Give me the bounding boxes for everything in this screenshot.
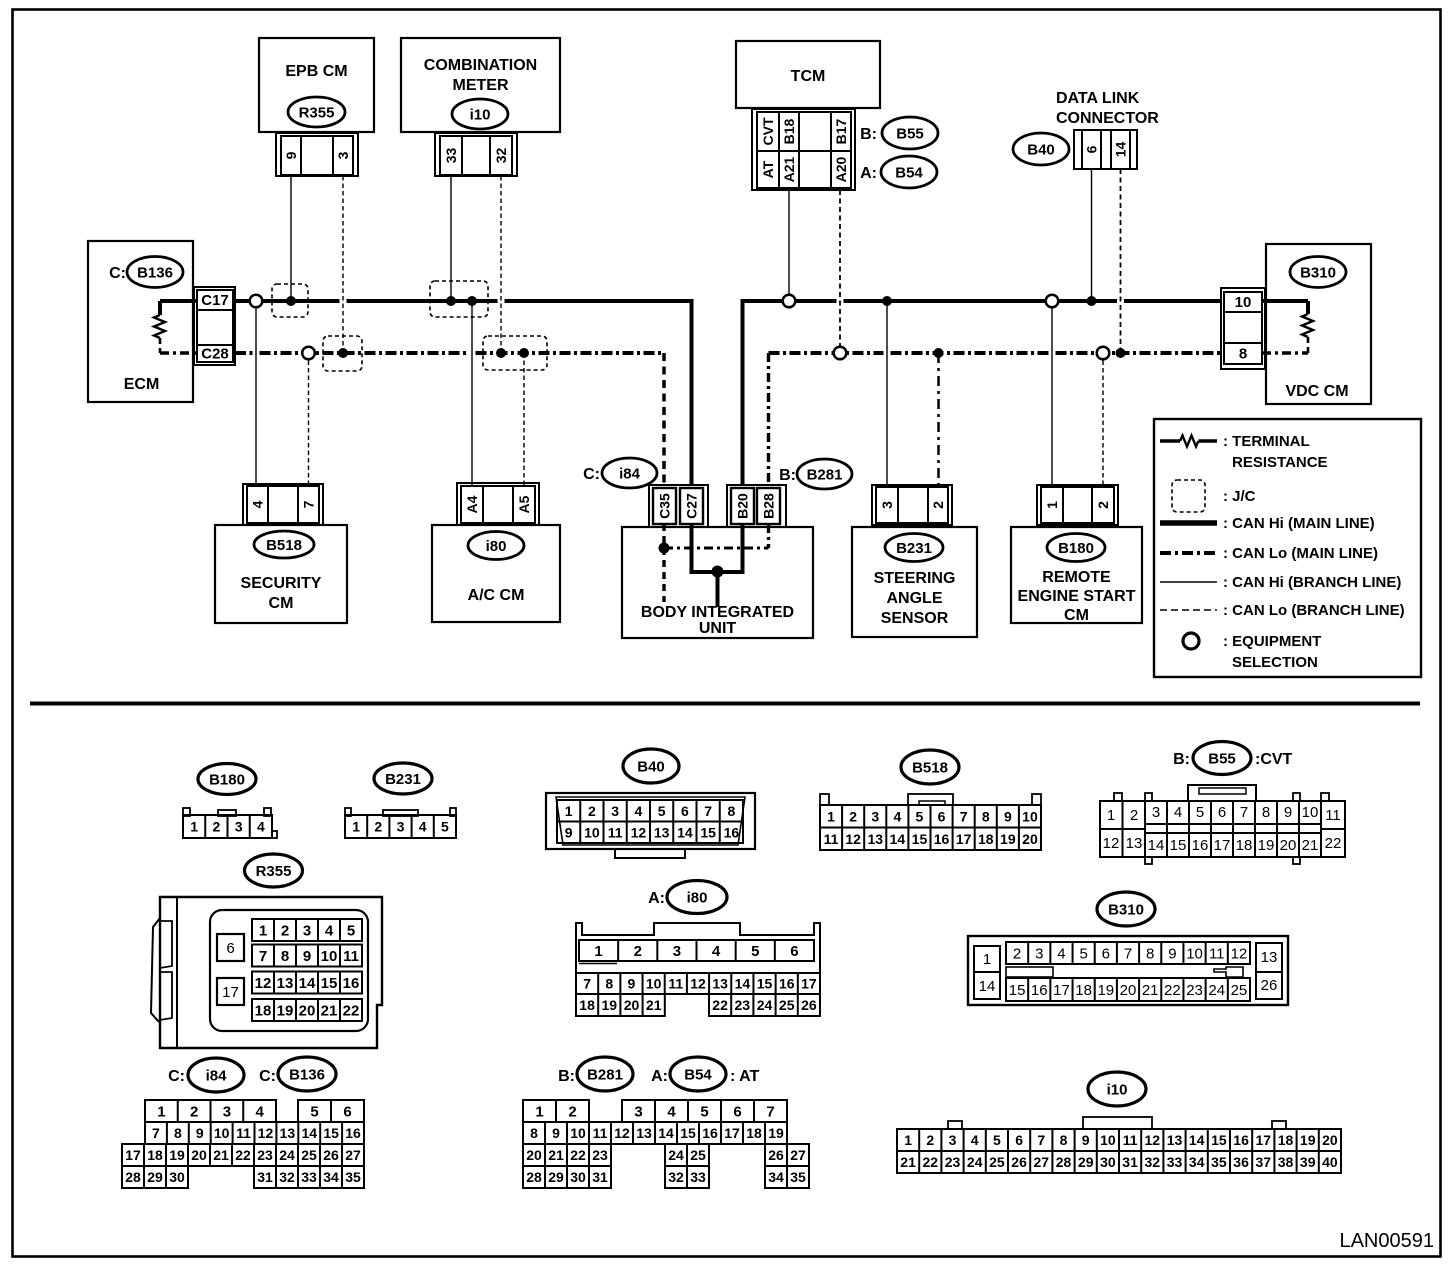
svg-text:13: 13 (1261, 949, 1278, 966)
svg-text:DATA LINK: DATA LINK (1056, 90, 1140, 107)
svg-text:A/C CM: A/C CM (468, 587, 525, 604)
svg-text:7: 7 (259, 948, 267, 965)
svg-text:20: 20 (1322, 1132, 1338, 1148)
component BODY INTEGRATED UNIT (622, 527, 813, 638)
svg-text:20: 20 (624, 997, 640, 1013)
svg-text:8: 8 (1262, 804, 1270, 821)
connector B518 pin view 1-20 (820, 794, 1041, 850)
svg-text:2: 2 (190, 1103, 198, 1120)
svg-text:26: 26 (1011, 1154, 1027, 1170)
oval B180 (remote engine start CM) (1047, 534, 1105, 562)
svg-text:33: 33 (690, 1169, 706, 1185)
component EPB CM (259, 38, 374, 132)
wire branch CAN Hi EPB CM pin 9 (290, 176, 292, 301)
oval R355 (connector view) (245, 854, 303, 887)
wire CAN Lo main line (left segment) (235, 351, 253, 355)
svg-text:12: 12 (845, 831, 861, 847)
svg-text:30: 30 (570, 1169, 586, 1185)
svg-text:17: 17 (222, 984, 239, 1001)
svg-text:12: 12 (631, 824, 647, 840)
wire branch CAN Hi data link connector pin 6 (1091, 169, 1093, 301)
svg-text:1: 1 (594, 943, 602, 960)
wire branch CAN Lo TCM A20/B17 (839, 190, 841, 353)
svg-text:15: 15 (323, 1125, 339, 1141)
svg-text:22: 22 (235, 1147, 251, 1163)
svg-text:B136: B136 (137, 264, 173, 281)
svg-text:3: 3 (673, 943, 681, 960)
legend CAN Hi branch line (1160, 574, 1401, 591)
svg-text:4: 4 (257, 819, 265, 835)
svg-text:1: 1 (983, 951, 991, 968)
svg-text:B180: B180 (1058, 540, 1094, 557)
svg-text:15: 15 (680, 1125, 696, 1141)
svg-text:11: 11 (593, 1125, 608, 1141)
wire branch CAN Hi remote engine start CM pin 1 (1051, 301, 1053, 486)
equipment selection circle (remote engine start, CAN Hi) (1046, 295, 1059, 308)
svg-text:14: 14 (890, 831, 906, 847)
connector pins 1/2 (remote engine start CM) (1037, 485, 1118, 525)
svg-text:37: 37 (1256, 1154, 1272, 1170)
label B: B281 (body integrated unit) (779, 459, 852, 489)
svg-text:15: 15 (321, 975, 338, 992)
svg-text:22: 22 (343, 1002, 360, 1019)
wire CAN Lo main line corner down to B28 (767, 353, 770, 486)
component TCM (736, 41, 880, 108)
connector C17/C28 (ECM) (194, 287, 235, 365)
svg-text:18: 18 (1278, 1132, 1294, 1148)
svg-text:A4: A4 (464, 495, 480, 513)
wire CAN Lo main line corner down to C35 (662, 353, 666, 486)
junction dot EPB pin 3 on CAN Lo (338, 348, 348, 358)
svg-text:20: 20 (1120, 982, 1137, 999)
component STEERING ANGLE SENSOR (852, 527, 977, 637)
svg-text:LAN00591: LAN00591 (1339, 1230, 1434, 1252)
svg-text:35: 35 (345, 1169, 361, 1185)
connector B310 pin view 1-26 (968, 936, 1288, 1005)
svg-text:35: 35 (790, 1169, 806, 1185)
J/C junction box (EPB CM branch, CAN Hi) (272, 284, 308, 317)
svg-text:6: 6 (226, 940, 234, 957)
oval A: B54 (TCM) (860, 156, 937, 188)
svg-text:18: 18 (978, 831, 994, 847)
svg-text:: AT: : AT (730, 1068, 760, 1085)
svg-text:34: 34 (768, 1169, 784, 1185)
svg-text:B55: B55 (1208, 750, 1236, 767)
svg-text:i80: i80 (486, 538, 507, 555)
svg-text:4: 4 (667, 1103, 676, 1120)
svg-text:5: 5 (441, 819, 449, 835)
svg-text:23: 23 (1186, 982, 1203, 999)
connector i10 pin view 1-40 (897, 1117, 1341, 1173)
component REMOTE ENGINE START CM (1011, 527, 1142, 624)
connector pins 4/7 (security CM) (243, 484, 323, 525)
svg-text:8: 8 (1146, 945, 1154, 962)
svg-text:32: 32 (668, 1169, 684, 1185)
svg-text:B20: B20 (734, 493, 750, 519)
svg-text:B54: B54 (895, 164, 923, 181)
svg-text:: CAN Hi (MAIN LINE): : CAN Hi (MAIN LINE) (1223, 515, 1375, 532)
svg-text:7: 7 (1240, 804, 1248, 821)
svg-text:4: 4 (325, 922, 334, 939)
svg-text:1: 1 (352, 819, 360, 835)
connector R355 pin view 1-22 (151, 897, 382, 1048)
svg-text:B:: B: (558, 1068, 575, 1085)
wire CAN Hi main line corner down to C27 (690, 299, 694, 486)
svg-text:CVT: CVT (760, 117, 776, 145)
svg-text:B:: B: (860, 126, 877, 143)
connector pins 9/3 (EPB CM) (276, 133, 358, 176)
svg-text:6: 6 (1102, 945, 1110, 962)
svg-text:18: 18 (1075, 982, 1092, 999)
svg-text:8: 8 (530, 1125, 538, 1141)
J/C junction box (combination meter / A/C CM, CAN Hi) (430, 281, 488, 317)
svg-text:6: 6 (1015, 1132, 1023, 1148)
svg-text:17: 17 (1214, 837, 1231, 854)
wire branch CAN Lo security CM pin 7 (308, 353, 310, 486)
svg-text:AT: AT (760, 160, 776, 178)
legend equipment selection symbol (1183, 633, 1321, 671)
svg-text:1: 1 (565, 803, 573, 819)
svg-text:3: 3 (1035, 945, 1043, 962)
svg-text:22: 22 (923, 1154, 939, 1170)
svg-text:13: 13 (654, 824, 670, 840)
svg-text:20: 20 (191, 1147, 207, 1163)
svg-text:21: 21 (900, 1154, 916, 1170)
svg-text:17: 17 (125, 1147, 141, 1163)
svg-text:6: 6 (1083, 145, 1099, 153)
svg-text:6: 6 (790, 943, 798, 960)
J/C junction box (combination meter / A/C CM, CAN Lo) (483, 336, 547, 370)
svg-text:5: 5 (1196, 804, 1204, 821)
oval B: B55 (TCM) (860, 117, 938, 149)
svg-text:2: 2 (374, 819, 382, 835)
connector TCM pins AT/CVT A21/B18 A20/B17 (752, 109, 855, 190)
svg-text:B40: B40 (637, 758, 665, 775)
svg-text:16: 16 (1233, 1132, 1249, 1148)
svg-text:4: 4 (419, 819, 427, 835)
oval i10 (combination meter) (452, 99, 508, 129)
svg-text:13: 13 (712, 976, 728, 992)
wire CAN Lo inside body integrated unit (C35 to B28) (664, 524, 769, 602)
svg-text:10: 10 (214, 1125, 230, 1141)
svg-text:12: 12 (258, 1125, 274, 1141)
svg-text:RESISTANCE: RESISTANCE (1232, 454, 1328, 471)
svg-text:16: 16 (343, 975, 360, 992)
svg-text:13: 13 (1167, 1132, 1183, 1148)
svg-text:A21: A21 (781, 156, 797, 182)
svg-text:B281: B281 (807, 466, 843, 483)
junction dot data link pin 6 on CAN Hi (1087, 296, 1097, 306)
svg-text:: J/C: : J/C (1223, 488, 1256, 505)
wire CAN Hi main line (right segment) (743, 299, 837, 303)
legend J/C symbol (1172, 480, 1256, 512)
svg-text:16: 16 (1192, 837, 1209, 854)
svg-text:27: 27 (345, 1147, 361, 1163)
svg-text:C17: C17 (201, 292, 229, 309)
junction dot CAN Hi inside body integrated unit (712, 566, 724, 578)
svg-text:TCM: TCM (791, 68, 826, 85)
svg-text:30: 30 (169, 1169, 185, 1185)
svg-text:19: 19 (1300, 1132, 1316, 1148)
svg-text:11: 11 (1325, 807, 1341, 824)
svg-text:3: 3 (634, 1103, 642, 1120)
svg-text:8: 8 (605, 976, 613, 992)
junction dot steering sensor pin 2 on CAN Lo (934, 348, 944, 358)
svg-text:2: 2 (926, 1132, 934, 1148)
svg-text:21: 21 (646, 997, 662, 1013)
svg-text:26: 26 (323, 1147, 339, 1163)
svg-text:2: 2 (588, 803, 596, 819)
svg-text:i80: i80 (687, 889, 708, 906)
svg-text:22: 22 (1164, 982, 1181, 999)
oval B: B55 :CVT (connector view) (1173, 742, 1292, 775)
svg-text:B231: B231 (385, 771, 421, 788)
svg-text:20: 20 (1022, 831, 1038, 847)
svg-text:11: 11 (608, 824, 623, 840)
svg-text:19: 19 (1000, 831, 1016, 847)
wire branch CAN Lo A/C CM pin A5 (523, 353, 525, 486)
svg-text:3: 3 (303, 922, 311, 939)
svg-text:2: 2 (634, 943, 642, 960)
connector B40 pin view 1-16 (546, 793, 755, 858)
equipment selection circle (TCM, CAN Lo) (834, 347, 847, 360)
svg-text:16: 16 (724, 824, 740, 840)
svg-text:38: 38 (1278, 1154, 1294, 1170)
svg-text:14: 14 (658, 1125, 674, 1141)
svg-text:B17: B17 (833, 118, 849, 144)
svg-text:R355: R355 (256, 863, 292, 880)
svg-text:8: 8 (281, 948, 289, 965)
wire branch CAN Lo remote engine start CM pin 2 (1102, 353, 1104, 486)
J/C junction box (EPB CM branch, CAN Lo) (323, 336, 362, 371)
svg-text:25: 25 (690, 1147, 706, 1163)
svg-text:CONNECTOR: CONNECTOR (1056, 110, 1159, 127)
legend CAN Hi main line (1160, 515, 1375, 532)
junction dot EPB pin 9 on CAN Hi (286, 296, 296, 306)
svg-text:15: 15 (1009, 982, 1026, 999)
svg-text:21: 21 (1302, 837, 1319, 854)
svg-text:22: 22 (570, 1147, 586, 1163)
svg-text:22: 22 (712, 997, 728, 1013)
svg-text:6: 6 (733, 1103, 741, 1120)
connector B180 pin view 1-4 (183, 808, 277, 838)
svg-text:36: 36 (1233, 1154, 1249, 1170)
svg-text:CM: CM (269, 595, 294, 612)
svg-text:COMBINATION: COMBINATION (424, 57, 537, 74)
svg-text:5: 5 (658, 803, 666, 819)
svg-text:31: 31 (1122, 1154, 1138, 1170)
svg-text:4: 4 (255, 1103, 264, 1120)
svg-text:A5: A5 (516, 495, 532, 513)
svg-text:23: 23 (735, 997, 751, 1013)
svg-text:: CAN Hi (BRANCH LINE): : CAN Hi (BRANCH LINE) (1223, 574, 1401, 591)
junction dot steering sensor pin 3 on CAN Hi (882, 296, 892, 306)
svg-text:6: 6 (343, 1103, 351, 1120)
svg-text:14: 14 (1148, 837, 1165, 854)
svg-text:20: 20 (1280, 837, 1297, 854)
svg-text:14: 14 (301, 1125, 317, 1141)
oval R355 (288, 97, 345, 127)
svg-text:16: 16 (702, 1125, 718, 1141)
oval B40 (data link connector) (1013, 133, 1069, 165)
oval B518 (security CM) (254, 531, 314, 558)
svg-text:2: 2 (212, 819, 220, 835)
svg-text:3: 3 (335, 151, 351, 159)
svg-text:VDC CM: VDC CM (1285, 383, 1348, 400)
wire CAN Hi inside body integrated unit (C27 to B20) (690, 524, 745, 607)
svg-text:23: 23 (945, 1154, 961, 1170)
svg-text:EPB CM: EPB CM (285, 63, 347, 80)
svg-text:11: 11 (1123, 1132, 1138, 1148)
svg-text:7: 7 (1037, 1132, 1045, 1148)
svg-text:A:: A: (651, 1068, 668, 1085)
svg-text:ANGLE: ANGLE (887, 590, 943, 607)
svg-text:31: 31 (257, 1169, 273, 1185)
equipment selection circle (remote engine start, CAN Lo) (1097, 347, 1110, 360)
svg-text:3: 3 (871, 808, 879, 824)
connector C35/C27 (body integrated unit) (649, 485, 708, 527)
svg-text:3: 3 (949, 1132, 957, 1148)
svg-text:7: 7 (152, 1125, 160, 1141)
svg-text:19: 19 (1258, 837, 1275, 854)
oval A: i80 (connector view) (648, 881, 727, 914)
svg-text:i10: i10 (470, 106, 491, 123)
svg-text:B231: B231 (896, 540, 932, 557)
svg-text:2: 2 (1130, 807, 1138, 824)
svg-text:i84: i84 (619, 465, 641, 482)
junction dot A/C A5 on CAN Lo (519, 348, 529, 358)
svg-text:33: 33 (1167, 1154, 1183, 1170)
wire branch CAN Lo combination meter pin 32 (500, 176, 502, 353)
svg-text:34: 34 (323, 1169, 339, 1185)
svg-text:9: 9 (196, 1125, 204, 1141)
svg-text:11: 11 (668, 976, 683, 992)
wire CAN Hi main line (left segment) (235, 299, 340, 303)
svg-text:32: 32 (1145, 1154, 1161, 1170)
svg-text:SELECTION: SELECTION (1232, 654, 1318, 671)
section divider line (30, 702, 1420, 706)
svg-text:9: 9 (1284, 804, 1292, 821)
svg-text:8: 8 (727, 803, 735, 819)
svg-text:23: 23 (257, 1147, 273, 1163)
svg-text:3: 3 (223, 1103, 231, 1120)
svg-text:9: 9 (283, 151, 299, 159)
svg-text:10: 10 (321, 948, 338, 965)
svg-text:25: 25 (301, 1147, 317, 1163)
svg-text:16: 16 (1031, 982, 1048, 999)
svg-text:UNIT: UNIT (699, 620, 737, 637)
svg-text:ECM: ECM (124, 376, 160, 393)
svg-text:3: 3 (235, 819, 243, 835)
connector i80 pin view 1-26 (576, 923, 820, 1016)
svg-text:11: 11 (824, 831, 839, 847)
svg-text:7: 7 (766, 1103, 774, 1120)
svg-text:B310: B310 (1300, 264, 1336, 281)
junction dot meter pin 32 on CAN Lo (496, 348, 506, 358)
svg-text:26: 26 (801, 997, 817, 1013)
svg-text:SENSOR: SENSOR (881, 610, 949, 627)
svg-text:A:: A: (860, 165, 877, 182)
oval i80 (A/C CM) (468, 532, 524, 560)
svg-text:9: 9 (1004, 808, 1012, 824)
svg-text:24: 24 (668, 1147, 684, 1163)
svg-text:19: 19 (277, 1002, 294, 1019)
oval B40 (connector view) (623, 749, 679, 783)
svg-text:4: 4 (971, 1132, 979, 1148)
svg-text:5: 5 (751, 943, 759, 960)
svg-text:19: 19 (1097, 982, 1114, 999)
svg-text:12: 12 (255, 975, 272, 992)
svg-text:A:: A: (648, 890, 665, 907)
svg-text:32: 32 (493, 148, 509, 164)
svg-text:7: 7 (704, 803, 712, 819)
svg-text:1: 1 (1107, 807, 1115, 824)
oval B310 (VDC CM) (1290, 257, 1346, 288)
wire branch CAN Hi TCM A21/B18 (788, 190, 790, 301)
svg-text:35: 35 (1211, 1154, 1227, 1170)
svg-text:34: 34 (1189, 1154, 1205, 1170)
svg-text:17: 17 (724, 1125, 740, 1141)
svg-text:10: 10 (1100, 1132, 1116, 1148)
svg-text:B28: B28 (760, 493, 776, 519)
svg-text:B518: B518 (912, 759, 948, 776)
svg-text:19: 19 (768, 1125, 784, 1141)
svg-text:B518: B518 (266, 537, 302, 554)
svg-text:B:: B: (1173, 751, 1190, 768)
svg-text:12: 12 (1145, 1132, 1161, 1148)
wire branch CAN Lo steering angle sensor pin 2 (937, 353, 940, 486)
svg-text:7: 7 (300, 500, 316, 508)
wire branch CAN Hi combination meter pin 33 (450, 176, 452, 301)
oval B180 (connector view) (198, 764, 256, 795)
svg-text:10: 10 (646, 976, 662, 992)
svg-text:12: 12 (690, 976, 706, 992)
svg-text:15: 15 (1211, 1132, 1227, 1148)
svg-text:B55: B55 (896, 125, 924, 142)
wire branch CAN Hi security CM pin 4 (255, 301, 257, 486)
svg-text:3: 3 (1152, 804, 1160, 821)
svg-text:29: 29 (548, 1169, 564, 1185)
svg-text:14: 14 (1112, 142, 1128, 158)
connector pins 33/32 (combination meter) (435, 133, 517, 176)
connector pins 3/2 (steering angle sensor) (872, 485, 952, 525)
legend CAN Lo branch line (1160, 602, 1405, 619)
svg-text:5: 5 (310, 1103, 318, 1120)
svg-text:39: 39 (1300, 1154, 1316, 1170)
junction dot A/C A4 on CAN Hi (467, 296, 477, 306)
svg-text:17: 17 (1256, 1132, 1272, 1148)
svg-text:17: 17 (1053, 982, 1070, 999)
svg-text:26: 26 (1261, 977, 1278, 994)
svg-text:: TERMINAL: : TERMINAL (1223, 433, 1310, 450)
svg-text:2: 2 (1013, 945, 1021, 962)
svg-text:10: 10 (1186, 945, 1203, 962)
svg-text:SECURITY: SECURITY (241, 575, 322, 592)
svg-text:8: 8 (174, 1125, 182, 1141)
component A/C CM (432, 525, 560, 622)
svg-text:10: 10 (570, 1125, 586, 1141)
junction dot CAN Lo inside body integrated unit (659, 543, 670, 554)
wire CAN Lo main line (right segment) (769, 351, 884, 355)
oval i10 (connector view) (1088, 1072, 1146, 1106)
label DATA LINK CONNECTOR (1056, 90, 1159, 127)
svg-text:CM: CM (1064, 607, 1089, 624)
svg-text:2: 2 (281, 922, 289, 939)
svg-text:STEERING: STEERING (874, 570, 956, 587)
wire branch CAN Lo data link connector pin 14 (1120, 169, 1122, 353)
svg-text:5: 5 (1079, 945, 1087, 962)
svg-text:C:: C: (168, 1068, 185, 1085)
